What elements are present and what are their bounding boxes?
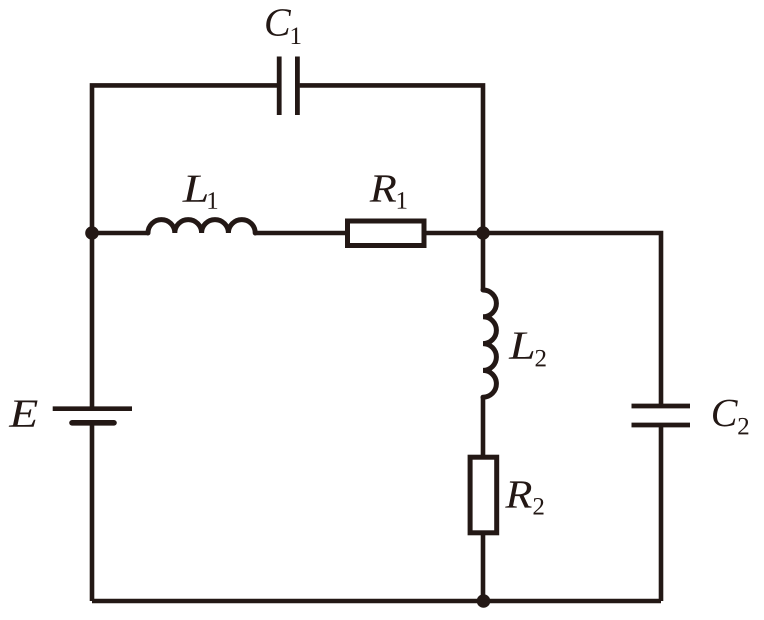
- label R1 letter R: [370, 175, 397, 201]
- label L2 letter L: [509, 333, 534, 359]
- wire battery to bottom: [90, 425, 95, 601]
- wire L2 to R2: [481, 397, 486, 455]
- capacitor C2: [632, 406, 691, 425]
- wire node B down to L2: [481, 233, 486, 290]
- wire node A down to battery: [90, 233, 95, 407]
- resistor R1: [348, 221, 425, 246]
- wire node B to C2 branch: [483, 233, 661, 404]
- node C junction dot (bottom): [477, 594, 491, 608]
- label R1 subscript 1: [398, 192, 407, 209]
- label L1 letter L: [182, 176, 207, 202]
- wire node A to L1: [92, 231, 148, 236]
- node B junction dot: [476, 226, 490, 240]
- wire R2 to bottom node: [481, 533, 486, 601]
- wire top loop left: from left node up and right to C1 left plate: [92, 85, 277, 233]
- label E letter: [9, 401, 38, 427]
- node A junction dot: [85, 226, 99, 240]
- inductor L1: [148, 220, 255, 233]
- inductor L2: [483, 290, 496, 397]
- wire R1 to node B: [427, 231, 484, 236]
- label C1 letter C: [266, 9, 291, 36]
- label C2 subscript 2: [738, 418, 748, 435]
- battery E: [53, 409, 132, 423]
- wire top loop right: from C1 right plate to right node: [300, 85, 483, 233]
- label R2 letter R: [505, 481, 532, 507]
- resistor R2: [470, 457, 497, 533]
- label L2 subscript 2: [536, 350, 546, 367]
- wire L1 to R1: [255, 231, 345, 236]
- wire bottom: [92, 599, 661, 604]
- wire C2 to bottom: [659, 427, 664, 601]
- label L1 subscript 1: [208, 192, 217, 209]
- label C2 letter C: [713, 400, 738, 427]
- label R2 subscript 2: [533, 498, 543, 515]
- capacitor C1: [279, 57, 297, 116]
- label C1 subscript 1: [292, 27, 301, 44]
